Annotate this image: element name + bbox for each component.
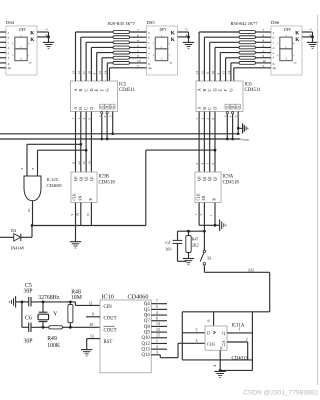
wire IC9B CLK pin 9 to ground <box>70 203 75 242</box>
svg-text:12: 12 <box>90 334 94 338</box>
svg-text:DPY: DPY <box>284 28 292 32</box>
svg-text:BI: BI <box>231 105 234 109</box>
svg-text:g: g <box>8 61 10 65</box>
svg-text:4: 4 <box>213 365 217 367</box>
junction DS4 cathode node <box>47 36 50 39</box>
wire IC6 out 10 horizontal <box>215 46 239 48</box>
svg-text:15: 15 <box>222 71 226 75</box>
wire IC9B Q3 to IC5 input <box>87 112 91 173</box>
ground IC9B clock ground <box>70 242 81 248</box>
wire IC6 out 12 horizontal <box>204 36 239 38</box>
wire IC10 Q10 pin 15 stub <box>151 333 167 337</box>
junction R48 bottom <box>69 326 72 329</box>
decoder IC6 CD4511 box <box>196 81 261 112</box>
svg-text:R47: R47 <box>192 237 199 242</box>
wire IC6 out 15 horizontal <box>226 57 239 59</box>
ground R47 C4 ground <box>183 259 194 265</box>
svg-text:Q3: Q3 <box>90 176 94 181</box>
wire DS4 K cathode leads <box>37 28 49 42</box>
resistor R36 <box>239 31 256 34</box>
svg-text:32768Hz: 32768Hz <box>38 295 60 301</box>
svg-text:dp: dp <box>273 66 277 70</box>
IC6 BI pin bubble and wire to +VCC rail <box>229 112 234 139</box>
svg-text:K: K <box>295 30 299 36</box>
wire IC6 output 15 to segment <box>222 58 226 81</box>
junction tap Q2 to gate input 8 <box>85 149 88 152</box>
resistor pack R29-R35 1K*7 label <box>108 21 136 26</box>
ground DS6 cathode ground <box>307 42 318 48</box>
svg-text:g: g <box>273 61 275 65</box>
wire IC6 out 9 horizontal <box>220 52 239 54</box>
wire IC6 out 14 horizontal <box>231 62 239 64</box>
svg-text:1HZ: 1HZ <box>248 268 256 272</box>
ground DS5 cathode ground <box>183 42 194 48</box>
svg-text:10M: 10M <box>71 295 82 301</box>
svg-text:Q6: Q6 <box>144 313 150 318</box>
svg-text:Q12: Q12 <box>142 342 151 347</box>
power +VCC symbol <box>237 123 248 133</box>
wire IC11A R pin 4 <box>213 350 220 370</box>
svg-text:15: 15 <box>98 71 102 75</box>
wire IC6 out 13 horizontal <box>199 31 239 33</box>
svg-text:13: 13 <box>195 71 199 75</box>
wire IC10 Q6 pin 4 stub <box>151 311 167 315</box>
wire R36 output to DS6 pin 7 <box>256 28 272 32</box>
resistor R29 <box>113 31 130 34</box>
junction IC6 BI on +VCC rail <box>231 138 234 141</box>
svg-text:C: C <box>207 89 212 92</box>
svg-text:10: 10 <box>137 59 141 63</box>
svg-text:Q9: Q9 <box>144 331 150 336</box>
svg-text:B: B <box>78 107 83 110</box>
svg-text:30P: 30P <box>24 289 33 295</box>
wire IC6 output 9 to segment <box>216 53 220 81</box>
IC6 LT pin bubble and wire to +VCC rail <box>223 112 228 139</box>
junction S3 top node <box>203 230 206 233</box>
svg-text:Q2: Q2 <box>208 176 212 181</box>
svg-text:C: C <box>84 89 89 92</box>
svg-text:IC12C: IC12C <box>47 177 59 182</box>
svg-text:5: 5 <box>137 64 139 68</box>
svg-text:15: 15 <box>86 213 90 217</box>
svg-text:CD4081: CD4081 <box>47 183 63 188</box>
svg-text:DPY: DPY <box>160 28 168 32</box>
svg-text:9: 9 <box>263 54 265 58</box>
svg-text:4: 4 <box>156 311 158 315</box>
svg-text:D4: D4 <box>11 228 17 233</box>
wire reset net riser to IC9A <box>146 150 215 225</box>
resistor R31 <box>113 41 130 44</box>
wire IC5 out 10 horizontal <box>91 46 113 48</box>
crystal Y 32768Hz <box>38 295 60 328</box>
svg-text:12: 12 <box>77 71 81 75</box>
svg-text:1: 1 <box>263 49 265 53</box>
decoder IC5 CD4511 box <box>71 81 136 112</box>
wire RC node horizontal <box>178 230 205 232</box>
capacitor C5 30P <box>24 283 33 306</box>
svg-text:d: d <box>8 46 10 50</box>
IC5 BI pin bubble and wire to +VCC rail <box>103 112 108 139</box>
svg-text:Q10: Q10 <box>142 336 151 341</box>
wire R32 output to DS5 pin 2 <box>130 44 147 48</box>
svg-text:Q0: Q0 <box>198 176 202 181</box>
svg-text:13: 13 <box>156 328 160 332</box>
svg-text:10: 10 <box>27 209 31 213</box>
svg-text:K: K <box>171 30 175 36</box>
junction tap Q1 to gate input 9 <box>79 143 82 146</box>
svg-text:CD4518: CD4518 <box>99 181 116 186</box>
resistor R37 <box>239 36 256 39</box>
wire IC9B Q1 to IC5 input <box>77 112 81 173</box>
svg-text:6: 6 <box>207 320 211 322</box>
wire IC9B R pin 15 <box>86 203 91 226</box>
wire R42 output to DS6 pin 10 <box>256 59 272 63</box>
IC6 LE pin wire to rail <box>234 112 238 134</box>
wire IC10 Q12 pin 1 stub <box>151 339 167 343</box>
svg-text:7: 7 <box>156 299 158 303</box>
wire R40 output to DS6 pin 1 <box>256 49 272 53</box>
svg-text:1: 1 <box>156 339 158 343</box>
svg-text:9: 9 <box>93 73 97 75</box>
junction crystal bottom <box>42 326 45 329</box>
wire IC10 Q13 pin 2 stub <box>151 345 167 349</box>
svg-text:Q13: Q13 <box>142 348 151 353</box>
svg-text:COUT: COUT <box>104 328 117 333</box>
ground IC9A reset ground <box>215 220 226 231</box>
svg-text:14: 14 <box>227 71 231 75</box>
svg-text:13: 13 <box>72 71 76 75</box>
svg-text:K: K <box>30 30 34 36</box>
svg-text:LE: LE <box>111 105 115 109</box>
wire IC5 output 11 to segment <box>82 42 86 81</box>
svg-text:10: 10 <box>87 71 91 75</box>
svg-text:IC5: IC5 <box>119 83 127 88</box>
svg-text:B: B <box>202 107 207 110</box>
svg-text:7: 7 <box>263 28 265 32</box>
junction IC5 LE on rail <box>111 132 114 135</box>
svg-text:LE: LE <box>236 105 240 109</box>
svg-text:6: 6 <box>263 33 265 37</box>
svg-text:b: b <box>273 36 275 40</box>
resistor R39 <box>239 46 256 49</box>
svg-text:10: 10 <box>75 213 79 217</box>
resistor pack R36-R42 1K*7 label <box>231 21 259 26</box>
resistor R33 <box>113 51 130 54</box>
svg-text:B: B <box>202 89 207 92</box>
svg-text:D: D <box>89 88 94 91</box>
svg-text:CD4518: CD4518 <box>223 181 240 186</box>
svg-text:S3: S3 <box>207 256 211 261</box>
wire IC9A Q0 to IC6 input <box>195 112 199 173</box>
wire IC5 out 11 horizontal <box>86 41 113 43</box>
svg-text:14: 14 <box>103 71 107 75</box>
svg-text:12: 12 <box>200 71 204 75</box>
junction DS6 cathode node <box>311 36 314 39</box>
wire oscillator top node <box>16 302 100 306</box>
svg-text:14: 14 <box>87 161 91 165</box>
resistor R30 <box>113 36 130 39</box>
wire IC10 Q8 pin 14 stub <box>151 322 167 326</box>
ground DS4 cathode ground <box>43 42 54 48</box>
wire IC9A Q1 to IC6 input <box>200 112 204 173</box>
svg-text:7: 7 <box>137 28 139 32</box>
svg-text:15: 15 <box>156 333 160 337</box>
wire R35 output to DS5 pin 10 <box>130 59 147 63</box>
svg-text:G: G <box>228 88 233 91</box>
svg-text:DS4: DS4 <box>6 20 15 25</box>
wire IC5 out 9 horizontal <box>97 52 113 54</box>
wire IC5 output 14 to segment <box>103 63 107 81</box>
capacitor C6 30P <box>22 316 33 345</box>
svg-text:6: 6 <box>137 33 139 37</box>
wire IC5 out 12 horizontal <box>81 36 113 38</box>
svg-text:2: 2 <box>156 345 158 349</box>
svg-text:R49: R49 <box>47 336 57 342</box>
junction IC5 BI on +VCC rail <box>106 138 109 141</box>
display DS5 <box>147 20 178 75</box>
wire Q1 tap to IC12C input 9 <box>20 144 81 176</box>
switch S3 <box>200 250 211 265</box>
svg-text:Q8: Q8 <box>144 325 150 330</box>
svg-text:9: 9 <box>70 214 74 216</box>
wire R39 output to DS6 pin 2 <box>256 44 272 48</box>
svg-text:d: d <box>148 46 150 50</box>
svg-text:1: 1 <box>137 49 139 53</box>
wire Q2 tap to IC12C input 8 <box>31 150 86 176</box>
svg-text:3: 3 <box>156 351 158 355</box>
wire IC6 output 11 to segment <box>206 42 210 81</box>
wire R33 output to DS5 pin 1 <box>130 49 147 53</box>
wire IC12C output pin 10 <box>27 201 32 226</box>
svg-text:EN: EN <box>202 195 206 200</box>
wire DS6 dp line <box>234 64 271 81</box>
svg-text:BI: BI <box>106 105 109 109</box>
junction reset node at gate output <box>31 224 34 227</box>
resistor R34 <box>113 56 130 59</box>
svg-text:LT: LT <box>226 105 230 109</box>
wire IC9A R pin 7 <box>210 203 215 226</box>
wire IC10 Q7 pin 6 stub <box>151 316 167 320</box>
resistor R38 <box>239 41 256 44</box>
svg-text:10: 10 <box>89 323 93 327</box>
svg-text:K: K <box>171 37 175 43</box>
svg-text:10: 10 <box>211 71 215 75</box>
svg-text:CLK: CLK <box>207 341 215 346</box>
svg-text:9: 9 <box>20 168 24 170</box>
wire IC9B Q2 to IC5 input <box>82 112 86 173</box>
svg-text:IC9A: IC9A <box>223 175 234 180</box>
junction R47 top <box>187 230 190 233</box>
svg-text:g: g <box>148 61 150 65</box>
wire IC9B EN pin 10 <box>75 203 80 226</box>
wire R34 output to DS5 pin 9 <box>130 54 147 58</box>
svg-text:Q1: Q1 <box>79 176 83 181</box>
wire IC11A Qbar pin 2 feedback <box>227 338 248 360</box>
wire IC11A D pin 5 <box>182 312 205 360</box>
junction IC11A reset node <box>219 369 222 372</box>
wire DS4 segment input stubs <box>0 32 6 68</box>
junction DS5 cathode node <box>187 36 190 39</box>
svg-text:9: 9 <box>216 73 220 75</box>
flip-flop IC11A CD4013 box <box>205 323 248 361</box>
svg-text:13: 13 <box>82 161 86 165</box>
svg-text:Q2: Q2 <box>85 176 89 181</box>
svg-text:b: b <box>148 36 150 40</box>
svg-text:CD4013: CD4013 <box>232 357 249 362</box>
svg-text:Q14: Q14 <box>142 353 151 358</box>
wire DS5 dp line <box>110 64 147 81</box>
wire feedback lower run <box>182 359 252 361</box>
svg-text:11: 11 <box>72 161 76 165</box>
display DS4 <box>6 20 37 75</box>
wire R37 output to DS6 pin 6 <box>256 33 272 37</box>
wire IC10 Q5 pin 5 stub <box>151 305 167 309</box>
counter IC9A CD4518 box <box>195 172 239 203</box>
wire IC5 out 14 horizontal <box>107 62 113 64</box>
wire IC10 Q14 pin 3 to IC11A CLK <box>151 339 205 358</box>
wire IC6 out 11 horizontal <box>210 41 239 43</box>
junction IC5 LT on +VCC rail <box>100 138 103 141</box>
wire IC6 output 10 to segment <box>211 47 215 81</box>
svg-text:Q7: Q7 <box>144 319 150 324</box>
wire IC10 COUT pin 9 stub <box>86 313 100 317</box>
svg-text:11: 11 <box>206 71 210 75</box>
svg-text:IC9B: IC9B <box>99 175 109 180</box>
wire IC11A Q pin 1 output 2Hz <box>227 327 252 333</box>
svg-text:D: D <box>89 107 94 110</box>
and-gate IC12C CD4081 <box>24 176 63 201</box>
svg-text:7: 7 <box>210 215 214 217</box>
wire IC6 output 12 to segment <box>200 37 204 81</box>
svg-text:14: 14 <box>156 322 160 326</box>
watermark CSDN <box>243 390 318 397</box>
svg-text:Q4: Q4 <box>144 302 150 307</box>
svg-text:LT: LT <box>100 105 104 109</box>
wire R30 output to DS5 pin 6 <box>130 33 147 37</box>
wire IC6 output 13 to segment <box>195 32 199 81</box>
svg-text:B: B <box>78 89 83 92</box>
svg-text:CLK: CLK <box>196 193 200 201</box>
wire IC5 output 9 to segment <box>93 53 97 81</box>
svg-text:dp: dp <box>148 66 152 70</box>
resistor R41 <box>239 56 256 59</box>
resistor R49 100K <box>47 326 62 349</box>
capacitor C4 103 <box>165 231 186 261</box>
IC5 LT pin bubble and wire to +VCC rail <box>98 112 103 139</box>
svg-text:d: d <box>273 46 275 50</box>
svg-text:dp: dp <box>29 60 32 64</box>
svg-text:IC10: IC10 <box>102 294 114 301</box>
svg-text:EN: EN <box>78 195 82 200</box>
svg-text:11: 11 <box>89 302 93 306</box>
wire IC6 output 14 to segment <box>227 63 231 81</box>
svg-text:9: 9 <box>92 313 94 317</box>
svg-text:CIN: CIN <box>104 305 113 310</box>
svg-text:DS6: DS6 <box>271 20 280 25</box>
wire reset net from gate to counters <box>32 225 146 227</box>
svg-text:Q1: Q1 <box>203 176 207 181</box>
wire VCC rail upper <box>0 133 238 135</box>
wire DS6 K cathode leads <box>302 28 313 42</box>
svg-text:1: 1 <box>239 327 241 331</box>
wire IC11A set net top <box>182 312 269 326</box>
svg-text:COUT: COUT <box>104 316 117 321</box>
schematic sheet border right <box>317 15 319 385</box>
svg-text:3: 3 <box>184 28 188 30</box>
svg-text:dp: dp <box>169 60 173 64</box>
svg-text:2: 2 <box>246 338 248 342</box>
wire IC9A EN pin 2 to switch <box>199 203 204 251</box>
svg-text:103: 103 <box>165 246 171 251</box>
wire IC10 Q9 pin 13 stub <box>151 328 167 332</box>
wire 1HZ clock feed <box>204 265 269 312</box>
svg-text:C6: C6 <box>25 316 32 322</box>
svg-text:C: C <box>84 107 89 110</box>
svg-text:2K2: 2K2 <box>192 243 199 248</box>
resistor R47 1K2 <box>186 231 199 258</box>
resistor R32 <box>113 46 130 49</box>
junction IC6 LE on rail <box>237 132 240 135</box>
svg-text:9: 9 <box>137 54 139 58</box>
resistor R40 <box>239 51 256 54</box>
junction IC9A reset node <box>214 224 217 227</box>
wire set net right drop <box>220 312 252 371</box>
svg-text:2: 2 <box>199 214 203 216</box>
svg-text:6: 6 <box>156 316 158 320</box>
wire IC5 output 12 to segment <box>77 37 81 81</box>
wire IC9A CLK pin 1 <box>194 203 215 226</box>
svg-text:CD4511: CD4511 <box>245 88 262 93</box>
junction reset to IC9A D line <box>214 149 217 152</box>
svg-text:3: 3 <box>44 28 48 30</box>
svg-text:CD4511: CD4511 <box>119 88 136 93</box>
svg-text:30P: 30P <box>24 338 33 344</box>
ground IC10 reset ground <box>81 350 92 356</box>
svg-text:DS5: DS5 <box>147 20 156 25</box>
junction IC6 LT on +VCC rail <box>226 138 229 141</box>
wire oscillator bottom node <box>31 323 100 327</box>
svg-text:D: D <box>207 331 210 336</box>
svg-text:4: 4 <box>263 39 265 43</box>
svg-text:2: 2 <box>263 44 265 48</box>
ground IC11A ground <box>215 371 226 377</box>
svg-text:4: 4 <box>137 39 139 43</box>
wire IC10 RST pin 12 to ground <box>87 334 100 349</box>
svg-text:5: 5 <box>196 329 198 333</box>
resistor R48 10M <box>68 289 82 327</box>
oscillator-divider IC10 CD4060 box <box>100 294 151 373</box>
svg-text:IC6: IC6 <box>245 83 253 88</box>
wire R41 output to DS6 pin 9 <box>256 54 272 58</box>
svg-text:2: 2 <box>137 44 139 48</box>
svg-text:CSDN @2301_77983882: CSDN @2301_77983882 <box>243 390 318 397</box>
svg-text:dp: dp <box>8 66 12 70</box>
wire IC5 output 10 to segment <box>87 47 91 81</box>
junction C6 branch <box>21 301 24 304</box>
svg-text:1N4148: 1N4148 <box>10 245 24 250</box>
svg-text:3: 3 <box>308 28 312 30</box>
svg-text:R29-R35 1K*7: R29-R35 1K*7 <box>108 21 136 26</box>
svg-text:100K: 100K <box>47 343 61 349</box>
svg-text:10: 10 <box>263 59 267 63</box>
svg-text:Q0: Q0 <box>74 176 78 181</box>
svg-text:11: 11 <box>82 71 86 75</box>
wire IC5 output 13 to segment <box>72 32 76 81</box>
svg-text:5: 5 <box>156 305 158 309</box>
svg-text:E: E <box>94 89 99 92</box>
resistor R35 <box>113 62 130 65</box>
svg-text:RST: RST <box>104 340 113 345</box>
